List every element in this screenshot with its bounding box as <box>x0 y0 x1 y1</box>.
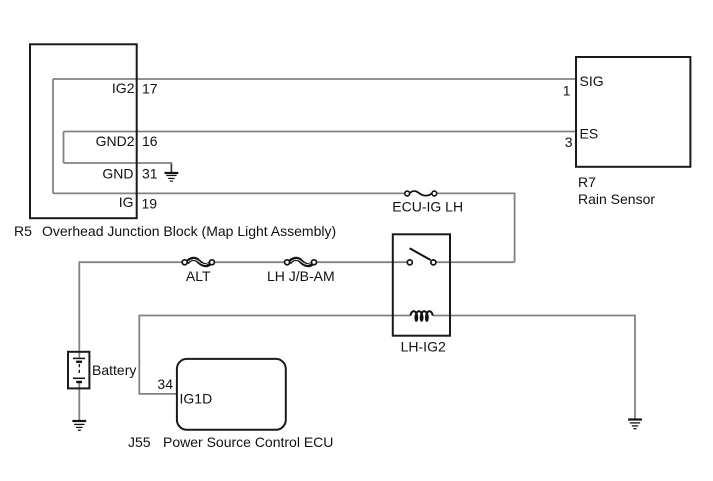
battery plate short bottom <box>76 381 82 383</box>
node IG1D pin 34 <box>157 376 212 407</box>
node GND2 pin 16 <box>96 133 158 149</box>
svg-text:ES: ES <box>580 126 599 142</box>
svg-text:31: 31 <box>142 166 158 182</box>
wire battery positive stub <box>78 352 80 359</box>
battery dashed cell link <box>78 364 80 375</box>
label R7 Rain Sensor <box>578 174 655 207</box>
wire fuse ALT to fuse LH J/B-AM <box>214 261 284 263</box>
fusible link LH J/B-AM <box>267 259 335 284</box>
svg-text:Battery: Battery <box>92 362 136 378</box>
svg-text:R5: R5 <box>14 223 32 239</box>
node SIG pin 1 <box>563 73 604 99</box>
ground at pin 31 <box>165 164 179 181</box>
ground at right (relay coil) <box>628 420 642 429</box>
svg-text:R7: R7 <box>578 174 596 190</box>
node GND pin 31 <box>102 166 157 182</box>
junction block R5 <box>30 44 137 218</box>
svg-text:LH J/B-AM: LH J/B-AM <box>267 268 335 284</box>
ECU J55 <box>177 359 286 430</box>
svg-text:J55: J55 <box>128 434 151 450</box>
fuse ECU-IG LH <box>392 191 463 214</box>
wire IG2 internal link (pin17 to pin19) <box>52 79 54 193</box>
svg-text:IG2: IG2 <box>112 80 135 96</box>
svg-text:Overhead Junction Block (Map L: Overhead Junction Block (Map Light Assem… <box>42 223 336 239</box>
node IG2 pin 17 <box>112 80 158 97</box>
wire battery to fuse ALT <box>79 262 182 352</box>
battery plate long bottom <box>73 377 85 379</box>
svg-text:ECU-IG LH: ECU-IG LH <box>392 199 463 215</box>
svg-text:IG1D: IG1D <box>180 391 213 407</box>
fusible link ALT <box>182 259 214 284</box>
node IG pin 19 <box>119 194 158 212</box>
wire fuse ECU-IG LH to relay switch <box>437 193 515 262</box>
svg-text:3: 3 <box>565 134 573 150</box>
svg-text:17: 17 <box>142 81 158 97</box>
svg-text:16: 16 <box>142 133 158 149</box>
wire battery negative to ground <box>78 382 80 421</box>
wire GND2 internal link (pin16 to pin31) <box>63 132 65 164</box>
wire relay switch right contact to node <box>436 261 515 263</box>
relay LH-IG2 <box>393 234 450 335</box>
svg-text:19: 19 <box>142 196 158 212</box>
relay coil <box>410 311 432 321</box>
svg-text:GND2: GND2 <box>96 133 135 149</box>
relay switch arm <box>410 248 431 260</box>
svg-text:34: 34 <box>157 376 173 392</box>
svg-text:SIG: SIG <box>580 73 604 89</box>
ground at battery <box>72 421 86 430</box>
wire IG pin19 to fuse ECU-IG LH <box>53 192 405 194</box>
label R5 Overhead Junction Block <box>14 223 336 239</box>
battery <box>68 352 136 389</box>
battery plate long top <box>73 357 85 359</box>
wire relay coil to right ground <box>433 316 635 420</box>
rain sensor R7 <box>576 57 690 167</box>
wire IG2 pin17 to R7 SIG <box>53 78 576 80</box>
svg-text:LH-IG2: LH-IG2 <box>401 339 446 355</box>
wire J55 pin34 to relay coil <box>139 316 410 394</box>
svg-text:IG: IG <box>119 194 134 210</box>
wire GND pin31 to ground <box>64 163 172 173</box>
wire GND2 pin16 to R7 ES <box>64 131 577 133</box>
node ES pin 3 <box>565 126 598 151</box>
svg-text:Power Source Control ECU: Power Source Control ECU <box>163 434 333 450</box>
relay switch contacts <box>407 248 436 265</box>
svg-text:GND: GND <box>102 166 133 182</box>
svg-text:1: 1 <box>563 83 571 99</box>
label J55 Power Source Control ECU <box>128 434 333 450</box>
svg-text:ALT: ALT <box>186 268 211 284</box>
wire fuse LH J/B-AM to relay switch left contact <box>317 261 408 263</box>
battery plate short top <box>76 361 82 363</box>
svg-text:Rain Sensor: Rain Sensor <box>578 191 655 207</box>
